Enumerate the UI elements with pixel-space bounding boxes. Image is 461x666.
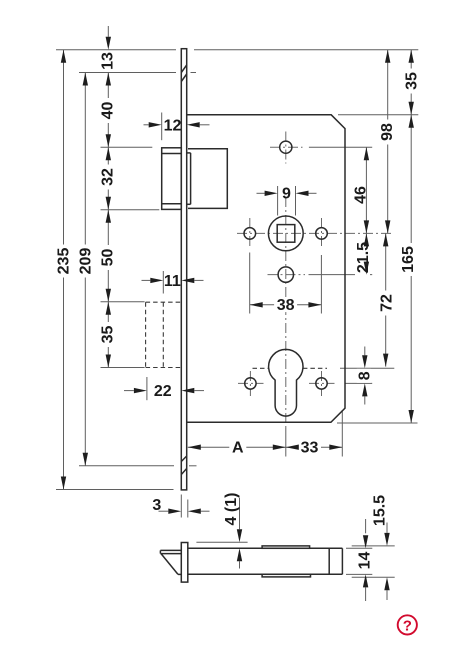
dashed deadbolt pocket	[145, 302, 147, 367]
svg-text:21.5: 21.5	[355, 242, 372, 273]
dimension line chain 13/40/32/50/35	[107, 26, 109, 37]
dimension line 72	[385, 233, 387, 366]
dimension line 235	[63, 50, 65, 490]
faceplate screw hole marks bottom	[181, 456, 186, 462]
euro profile cylinder hole	[269, 349, 303, 416]
extension lines bottom dims	[285, 428, 287, 457]
side view latch head lip	[160, 549, 181, 551]
dim tails 4(1)	[239, 498, 241, 529]
svg-text:12: 12	[164, 117, 182, 134]
side view latch body	[188, 547, 343, 549]
svg-text:32: 32	[100, 168, 117, 186]
dimension line 209	[84, 73, 86, 466]
faceplate latch opening	[187, 152, 191, 154]
svg-text:15.5: 15.5	[372, 495, 389, 526]
svg-text:4 (1): 4 (1)	[223, 493, 240, 526]
svg-text:209: 209	[78, 248, 95, 275]
lower-right hole crosshair	[309, 382, 335, 384]
svg-text:40: 40	[100, 102, 117, 120]
extension lines right	[309, 146, 372, 148]
side view latch bevel	[161, 554, 178, 575]
dim tails 9	[257, 192, 265, 194]
dimension line 35/165 right	[410, 50, 412, 423]
dim tails 3	[159, 510, 169, 512]
follower square spindle hole 9mm	[277, 225, 295, 243]
svg-text:33: 33	[301, 439, 319, 456]
lower-right cylinder fixing hole	[316, 378, 327, 389]
svg-text:235: 235	[56, 248, 73, 275]
svg-text:35: 35	[100, 326, 117, 344]
right hole crosshair	[321, 218, 323, 249]
left handle fixing hole	[244, 228, 256, 240]
follower circle	[268, 216, 303, 251]
svg-text:3: 3	[152, 497, 161, 514]
svg-text:14: 14	[356, 552, 373, 570]
text background gaps	[99, 98, 115, 123]
svg-text:35: 35	[404, 72, 421, 90]
dimension line A/33	[188, 446, 342, 448]
right handle fixing hole	[316, 228, 328, 240]
svg-text:8: 8	[356, 371, 373, 380]
svg-text:50: 50	[100, 249, 117, 267]
lower hole crosshair	[268, 274, 306, 276]
dim tails 15.5	[386, 523, 388, 533]
dimension line 46/21.5	[365, 147, 367, 274]
dimension line 38	[250, 304, 322, 306]
centerline vertical through spindle/cylinder	[285, 197, 287, 430]
latch bolt body in case	[188, 149, 227, 209]
left hole crosshair	[249, 218, 251, 249]
svg-text:38: 38	[277, 297, 295, 314]
svg-text:46: 46	[353, 186, 370, 204]
dim tails 22	[124, 390, 134, 392]
upper hole crosshair	[285, 132, 287, 164]
svg-text:?: ?	[403, 618, 412, 635]
svg-text:22: 22	[154, 383, 172, 400]
side view faceplate section	[181, 543, 188, 583]
dim tails 14	[365, 519, 367, 533]
centerline horizontal through spindle row	[237, 232, 394, 234]
svg-text:72: 72	[378, 294, 395, 312]
side view bottom guide strip	[262, 574, 310, 577]
red help icon	[398, 615, 417, 634]
arrows	[106, 37, 111, 50]
svg-text:A: A	[232, 439, 244, 456]
extension lines left/top	[56, 49, 176, 51]
lower hole below follower	[278, 267, 293, 282]
dim tails 11	[142, 279, 151, 281]
latch bolt head (front view)	[162, 148, 182, 210]
side view top guide strip	[262, 546, 310, 548]
svg-text:13: 13	[100, 52, 117, 70]
svg-text:165: 165	[400, 246, 417, 273]
dim tails 8	[364, 347, 366, 356]
faceplate screw hole marks top	[181, 65, 186, 73]
dim tails 12	[144, 124, 149, 126]
lower-left hole crosshair	[238, 382, 264, 384]
hidden dashed line through cylinder center	[253, 367, 269, 369]
svg-text:11: 11	[164, 273, 181, 290]
lower-left cylinder fixing hole	[245, 378, 256, 389]
upper fixing hole	[280, 141, 292, 153]
faceplate (front view)	[181, 49, 186, 490]
lock case outline	[187, 115, 345, 423]
svg-text:9: 9	[282, 185, 291, 202]
dimension line 98	[387, 50, 389, 234]
svg-text:98: 98	[379, 123, 396, 141]
